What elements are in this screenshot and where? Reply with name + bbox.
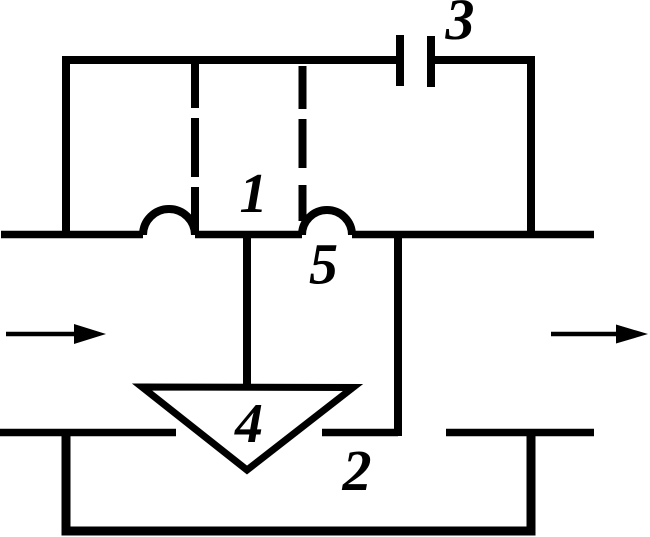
wire: middle conduit line right segment [352,231,594,239]
label 1 [240,163,268,225]
dashed line: right electrode lead [299,66,307,221]
flow arrow left head [74,324,106,344]
lower wall right segment [446,429,594,437]
wire: center drop to triangle [243,234,251,386]
label 3 [445,0,475,52]
capacitor C (element 3) right plate [427,36,435,87]
triangle body (element 4) [142,387,353,470]
wire: middle conduit line left segment [1,231,143,239]
flow arrow left shaft [6,332,80,337]
wire: middle conduit line center segment [195,231,302,239]
lower wall left segment [0,429,176,437]
label 5 [309,232,338,297]
crossover hop (electrode 5 bump) [302,210,352,235]
dashed line: left electrode lead [191,64,199,234]
wire: top bus right segment with right riser [435,60,531,238]
flow arrow right head [616,325,648,344]
flow arrow right shaft [551,332,622,337]
capacitor C (element 3) left plate [396,35,404,86]
lower wall center segment [322,429,398,437]
svg-text:4: 4 [234,393,263,455]
crossover hop (electrode 1 bump) [143,209,195,235]
svg-text:2: 2 [342,438,372,503]
svg-text:5: 5 [309,232,338,297]
label 2 [342,438,372,503]
wire: top bus left segment with left riser [66,60,396,238]
svg-text:3: 3 [445,0,475,52]
wire: right drop to lower wall [394,234,402,436]
bottom channel U-box [66,433,531,531]
label 4 [234,393,263,455]
svg-text:1: 1 [240,163,268,225]
